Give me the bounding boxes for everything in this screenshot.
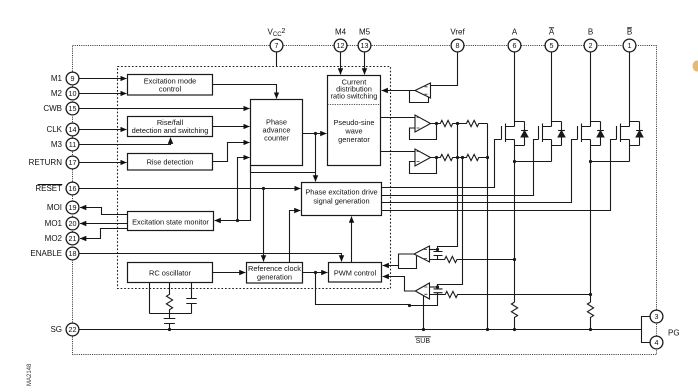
diode D1 [521,131,528,138]
junction counter-output node [314,132,317,135]
junction U4 plus-input node [436,248,439,251]
svg-text:12: 12 [337,41,345,50]
wire gate bus to Q1 (output A) [382,140,502,188]
wire pseudo-sine output A to U2 [381,117,416,119]
wire U1 output into current distribution block [382,90,415,92]
svg-text:CWB: CWB [43,104,62,113]
svg-text:SG: SG [50,325,62,334]
U5 input stub [430,286,438,288]
U1 feedback loop [410,91,429,103]
wire RETURN to rise detection [79,162,127,164]
wire CWB to phase advance counter [79,108,250,110]
junction U5 feedback node [408,304,411,307]
pin 11 M3 [66,138,79,151]
wire RESET to phase excitation drive block [79,188,301,190]
capacitor C4 to signal ground [164,314,176,330]
wire monitor to MOI pin 19 [80,208,127,215]
svg-text:Rise detection: Rise detection [147,158,194,167]
wire excitation mode control output down into counter [213,85,277,99]
block: Phase advance counter [251,100,303,166]
wire M4 into current distribution block [340,52,342,75]
wire node down into phase excitation block top [315,134,317,182]
resistor R9 (oscillator) [166,283,172,314]
internal logic dashed box [118,67,391,289]
pin 10 M2 [66,87,79,100]
pin 20 MO1 [66,217,79,230]
pin 13 M5 [358,39,371,52]
pin 15 CWB [66,102,79,115]
diode D4 [636,131,643,138]
svg-text:14: 14 [69,125,77,134]
wire gate bus to Q4 (output B-bar) [382,140,617,211]
block: Phase excitation drive signal generation [302,183,382,216]
junction dots [236,132,317,274]
svg-text:MA2148: MA2148 [27,363,33,386]
node SUB label [415,337,431,345]
svg-text:9: 9 [71,74,75,83]
svg-text:B: B [588,28,593,37]
svg-text:generation: generation [257,273,292,282]
wire M3 up into rise/fall detection bottom [79,138,171,145]
svg-text:19: 19 [69,203,77,212]
svg-text:20: 20 [69,219,77,228]
wire counter bottom to excitation state monitor [215,166,251,221]
svg-text:ratio switching: ratio switching [331,92,378,101]
svg-text:RC oscillator: RC oscillator [149,268,191,277]
op-amp U2 (pseudo-sine buffer A, points right) [415,115,431,132]
svg-text:signal generation: signal generation [313,197,369,206]
svg-text:control: control [159,85,182,94]
junction chain B end node [486,156,489,159]
block: PWM control [329,263,382,283]
U2 feedback loop [410,124,437,140]
wire reference clock generation up into phase excitation block [290,211,301,263]
wire M1 to excitation mode control [79,78,127,80]
junction chain end on SG line [486,328,489,331]
wire CLK to rise/fall detection [79,129,127,131]
pin 19 MOI [66,201,79,214]
pin 21 MO2 [66,232,79,245]
left pin name labels [29,74,63,334]
scan artifact dot right edge [693,61,698,72]
svg-text:10: 10 [69,89,77,98]
wire gate bus to Q2 (output A-bar) [382,140,539,196]
comparator U4 (PWM comparator A, points left) [414,246,430,262]
wire PG bracket [642,317,651,343]
capacitor C1 at U4 inputs [434,250,443,260]
U4 sense input resistor R5 to sense node A [430,256,515,262]
divider inside current-distribution box [328,104,381,106]
svg-text:SUB: SUB [416,338,431,345]
svg-text:counter: counter [264,134,289,143]
svg-text:1: 1 [628,41,632,50]
pin 18 ENABLE [66,247,79,260]
RC oscillator external network: left stub wire [149,283,151,314]
wire chain end down to signal ground line [487,124,489,330]
pin 12 M4 [334,39,347,52]
block: RC oscillator [128,263,213,283]
block: Excitation state monitor [128,212,214,231]
svg-text:MO1: MO1 [45,219,63,228]
pin 9 M1 [66,72,79,85]
wire M2 to excitation mode control [79,93,127,95]
wire source join A pair [515,161,552,163]
junction sense B on SG line [589,328,592,331]
U3 feedback loop [410,158,437,174]
pin 22 SG [66,323,79,336]
junction source join B node [589,160,592,163]
svg-text:Phase excitation drive: Phase excitation drive [305,188,377,197]
block: Rise detection [128,154,213,171]
wire M5 into current distribution block [364,52,366,75]
svg-text:16: 16 [69,184,77,193]
svg-text:Excitation state monitor: Excitation state monitor [132,217,209,226]
junction chain A mid node [456,122,459,125]
svg-text:8: 8 [456,41,460,50]
block: Excitation mode control [128,75,213,96]
capacitor C3 (oscillator) [186,283,196,314]
junction RC network on SG line [168,328,171,331]
wire source join B pair [591,161,630,163]
wire sense column A down to resistor [514,162,516,303]
resistor chain B: wire + resistor R3 + R4 [431,154,488,160]
wire Vref down and into U1 input [431,52,458,86]
U5 feedback loop to lower input node [410,293,438,306]
svg-text:15: 15 [69,104,77,113]
wire VCC2 down to internal logic boundary [276,52,278,67]
package outline (IC boundary, dotted) [73,46,657,355]
wire ENABLE to PWM control top [79,254,342,262]
wire RESET branch down to reference clock generation [263,189,265,262]
svg-text:5: 5 [550,41,554,50]
node A-bar overline [549,27,554,29]
wire counter bottom-left to phase-excitation feed [251,166,316,173]
svg-text:PWM control: PWM control [334,268,377,277]
svg-text:Vref: Vref [450,28,465,37]
svg-text:13: 13 [361,41,369,50]
pin 1 Bbar [623,39,636,52]
pin 7 VCC2 [270,39,283,52]
wire monitor to MO1 pin 20 [80,223,127,225]
junction SUB on SG line [422,328,425,331]
svg-text:RETURN: RETURN [29,158,63,167]
U4 feedback loop [399,256,417,269]
svg-text:17: 17 [69,158,77,167]
junction source join A node [513,160,516,163]
svg-text:detection and switching: detection and switching [132,126,209,135]
junction U3 feedback node [435,156,438,159]
transistor Q4 (output B-bar) [617,52,640,162]
pin 2 B [584,39,597,52]
svg-text:B: B [627,28,632,37]
svg-text:2: 2 [589,41,593,50]
wire U5 to substrate (SUB) [423,296,425,330]
junction dots analog [408,122,592,307]
node RESET overline [38,184,63,186]
pin 14 CLK [66,123,79,136]
wire sense column B down to resistor [590,162,592,303]
svg-text:M2: M2 [51,89,63,98]
pin 6 A [508,39,521,52]
wire U5 output to PWM control [383,277,416,292]
pin 8 Vref [451,39,464,52]
wire clock branch down and right to comparator feedback [316,273,410,305]
op-amp input polarity marks [417,87,428,294]
resistor R7 (sense A) [511,302,517,329]
junction sense B tap node [589,293,592,296]
svg-text:4: 4 [655,338,659,347]
resistor chain A: wire + resistor R1 + R2 [431,120,488,126]
wire RC oscillator to reference clock generation [213,272,246,274]
op-amp U3 (pseudo-sine buffer B, points right) [415,149,431,166]
wire PWM control up into phase excitation block bottom [351,217,353,263]
junction clock branch node [314,271,317,274]
wire rise detection output to counter [213,143,250,162]
junction chain B mid node 1 [456,156,459,159]
svg-text:M5: M5 [359,28,371,37]
wire counter output to pseudo-sine generator [303,133,327,135]
wire chain-mid vertical down to comparator U4 input [438,124,458,250]
transistor Q2 (output A-bar) [539,52,562,162]
diode D2 [558,131,565,138]
junction U5 plus-input node [436,285,439,288]
svg-text:ENABLE: ENABLE [30,249,62,258]
svg-text:21: 21 [69,234,77,243]
pin 4 PG [650,336,663,349]
transistor Q1 (output A) [502,52,525,162]
pin 3 PG [650,310,663,323]
svg-text:11: 11 [69,140,76,149]
block: Current distribution ratio switching / Pseudo-sine wave generator [328,76,381,166]
svg-text:M4: M4 [335,28,347,37]
top pin name labels [268,28,633,39]
svg-text:CLK: CLK [46,125,62,134]
junction dots on SG line [168,328,592,331]
svg-text:MO2: MO2 [45,234,63,243]
wire monitor-feed branch up into counter [238,158,250,221]
svg-text:6: 6 [513,41,517,50]
capacitor C2 at U5 inputs [434,287,443,295]
junction RESET branch node [262,187,265,190]
junction sense A tap node [513,258,516,261]
wire reference clock generation to PWM control [303,272,328,274]
wire chain B tap down to comparator U5 input [438,158,463,288]
diode D3 [597,131,604,138]
svg-text:M3: M3 [51,140,63,149]
pin 16 RESET [66,182,79,195]
junction U2 feedback node [435,122,438,125]
wire U4 output to PWM control [383,254,414,266]
svg-text:RESET: RESET [35,184,62,193]
U4 input stub [430,249,438,251]
svg-text:3: 3 [655,312,659,321]
svg-text:7: 7 [275,41,279,50]
wire gate bus to Q3 (output B) [382,140,578,203]
wire monitor to MO2 pin 21 [80,229,127,239]
junction monitor-feed branch node [236,219,239,222]
svg-text:MOI: MOI [47,203,62,212]
pin 5 Abar [545,39,558,52]
wire pseudo-sine output B to U3 [381,151,416,153]
op-amp U1 (Vref buffer comparator, points left) [415,83,431,98]
svg-text:A: A [512,28,518,37]
block: Rise/fall detection and switching [128,117,213,137]
pin 17 RETURN [66,156,79,169]
junction sense A on SG line [513,328,516,331]
wire SG line to PG bracket [79,329,642,331]
comparator U5 (PWM comparator B, points left) [415,283,429,299]
svg-text:A: A [549,28,555,37]
transistor Q3 (output B) [578,52,601,162]
resistor R8 (sense B) [587,302,593,329]
svg-text:PG: PG [668,329,680,338]
svg-text:18: 18 [69,249,77,258]
wire rise/fall detection output to counter [213,126,250,128]
wire RC network bottom join [150,313,192,315]
block: Reference clock generation [247,263,303,284]
svg-text:M1: M1 [51,74,63,83]
node B-bar overline [627,27,632,29]
junction chain B mid node 2 [461,156,464,159]
svg-text:22: 22 [69,325,77,334]
U5 sense input resistor R6 to sense node B [430,291,591,297]
svg-text:generator: generator [338,135,370,144]
